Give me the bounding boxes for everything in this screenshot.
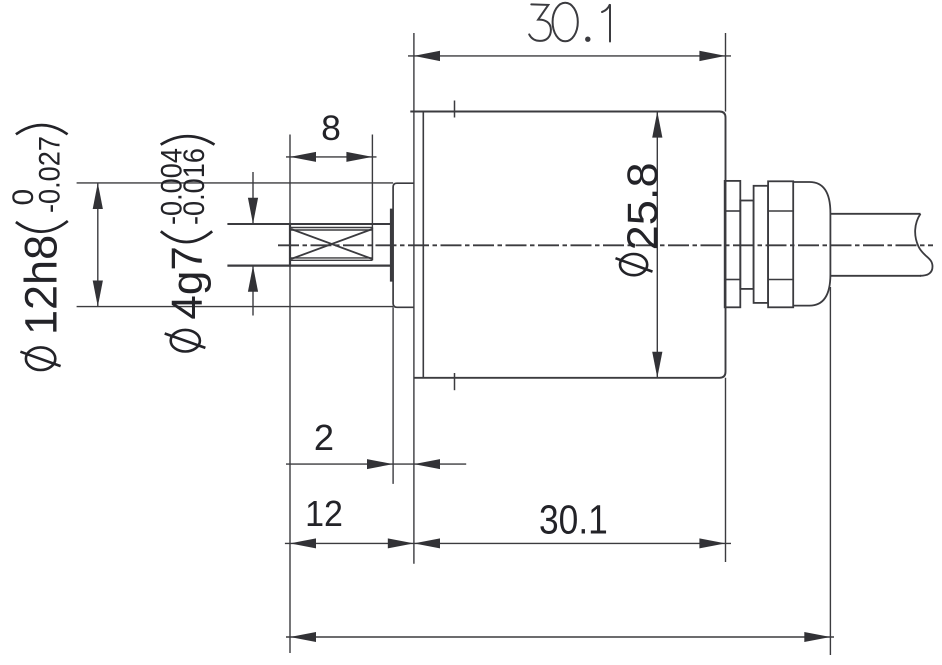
- dimension line phi25.8: [656, 112, 658, 378]
- arrow phi4 down: [248, 198, 258, 224]
- svg-text:25.8: 25.8: [619, 162, 667, 250]
- arrow 30.1 top right: [699, 51, 725, 61]
- svg-text:2: 2: [314, 417, 334, 458]
- tolerance paren open 4g7: [161, 231, 212, 242]
- spacer ring B: [740, 201, 753, 289]
- extension line flange left below: [392, 307, 394, 484]
- domed cap E: [793, 182, 830, 306]
- motor body front inner lip: [422, 112, 424, 378]
- dimension line phi4 lower tail: [252, 266, 254, 316]
- tolerance paren close 4g7: [161, 136, 215, 144]
- svg-text:12h8: 12h8: [16, 235, 67, 335]
- ring C: [754, 186, 769, 303]
- diameter symbol for 25.8: [616, 254, 653, 275]
- extension line cap right: [829, 287, 831, 655]
- arrow phi12 up: [93, 183, 103, 209]
- arrow phi25.8 down: [652, 352, 662, 378]
- arrow 2 right: [367, 459, 393, 469]
- extension line shaft end: [289, 135, 291, 654]
- arrow 30.1 bottom right: [699, 538, 725, 548]
- diameter symbol for 12h8: [20, 347, 60, 370]
- tick mark body top: [454, 101, 456, 118]
- arrow phi4 up: [248, 266, 258, 292]
- motor body outline: [410, 112, 725, 378]
- centerline axis: [278, 244, 933, 246]
- svg-text:-0.016: -0.016: [178, 148, 211, 225]
- dimension line 12 and 30.1 bottom: [285, 542, 731, 544]
- extension line body right bottom: [725, 378, 727, 562]
- output shaft right: [830, 214, 932, 276]
- shaft boss face: [390, 209, 393, 282]
- extension line flange right / body face: [413, 33, 415, 564]
- arrowheads: [93, 51, 831, 642]
- collar ring A: [725, 181, 741, 307]
- arrow 8 right: [346, 152, 372, 162]
- svg-text:30.1: 30.1: [539, 497, 608, 543]
- dimension line 8: [286, 156, 377, 158]
- arrow phi25.8 up: [652, 112, 662, 138]
- extension line knurl right: [371, 135, 373, 229]
- shaft break curve: [915, 214, 932, 276]
- arrow 2 left: [414, 459, 440, 469]
- svg-text:12: 12: [305, 493, 343, 534]
- shaft end face: [289, 223, 291, 267]
- nut D: [768, 181, 793, 307]
- knurl section box: [291, 228, 372, 261]
- arrow phi12 down: [93, 281, 103, 307]
- dimension text 30.1 top (thin CAD font, drawn): [529, 3, 610, 42]
- knurl cross diagonals: [291, 229, 372, 259]
- extension line body right top: [725, 33, 727, 112]
- extension and dimension lines (thin): [77, 33, 834, 655]
- diameter symbol for 4g7: [165, 330, 206, 352]
- extension line phi12 bottom: [77, 306, 394, 308]
- svg-text:8: 8: [321, 108, 341, 148]
- tick mark body bottom: [454, 373, 456, 390]
- shaft outline (phi 4): [227, 223, 391, 225]
- arrow 30.1 top left: [414, 51, 440, 61]
- extension line phi12 top: [77, 182, 394, 184]
- arrow 8 left: [290, 152, 316, 162]
- tolerance paren open 12h8: [16, 221, 68, 232]
- dimension line phi12: [97, 183, 99, 307]
- svg-text:-0.027: -0.027: [34, 136, 67, 213]
- arrow overall right: [804, 632, 830, 642]
- dimension line overall bottom: [286, 636, 834, 638]
- svg-text:4g7: 4g7: [163, 246, 212, 319]
- tolerance paren close 12h8: [16, 125, 68, 134]
- flange plate: [393, 183, 414, 307]
- arrow 30.1 bottom left: [414, 538, 440, 548]
- arrow 12 left: [290, 538, 316, 548]
- arrow overall left: [290, 632, 316, 642]
- dimension line 2: [286, 463, 466, 465]
- dimension line 30.1 top: [408, 55, 731, 57]
- dimension line phi4 upper tail: [252, 172, 254, 224]
- arrow 12 right: [388, 538, 414, 548]
